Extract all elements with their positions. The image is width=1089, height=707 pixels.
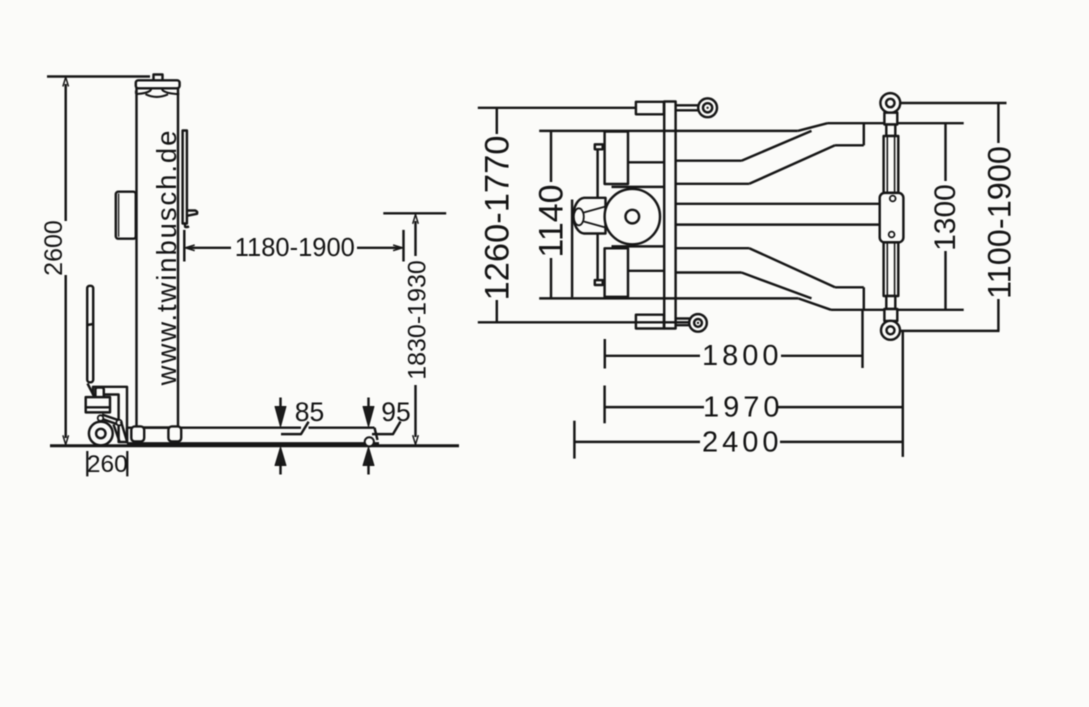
linkage bar [101, 415, 120, 425]
base tip [375, 428, 378, 440]
dim 1180-1900 right tick [402, 230, 404, 262]
tie bar bottom line [676, 223, 880, 225]
svg-text:1140: 1140 [533, 184, 571, 257]
bottom roller bracket [636, 315, 664, 329]
column cap pulley [137, 88, 179, 97]
dim 1140 vertical [550, 131, 552, 299]
svg-text:1800: 1800 [702, 340, 783, 372]
link plate pivot 2 [889, 232, 895, 238]
column body [137, 84, 179, 428]
dim 1970 left tick [603, 386, 605, 424]
pallet jack handle [87, 286, 93, 383]
dim 2600 open arrow down [63, 435, 69, 444]
dim 95 leader [372, 422, 401, 435]
dim 1970 line [605, 406, 903, 408]
top roller wheel [698, 98, 717, 117]
dim 1300 vertical [944, 123, 946, 310]
base bottom edge [127, 442, 379, 444]
pump piston knob [95, 388, 103, 398]
cylinder nose ellipse [574, 208, 584, 225]
dim 1800 left tick [604, 339, 606, 369]
dim 1100-1900 top tick line [899, 102, 1007, 104]
svg-text:260: 260 [87, 451, 128, 478]
bottom arm main diagonal [749, 248, 835, 287]
dim 2400 left tick [573, 421, 575, 459]
pump body inner line [86, 406, 110, 408]
dim 1830-1930 top tick line [383, 212, 446, 214]
bottom roller wheel [689, 314, 707, 332]
dim 1970 right tick (shared with 2400) [902, 330, 904, 457]
ground line [50, 444, 459, 447]
dim 1100-1900 vertical [997, 103, 999, 331]
link plate pivot 1 [890, 196, 896, 202]
dim 1180-1900 arrow left [185, 245, 194, 251]
bottom arm long bottom edge (also 1140 bottom tick) [539, 297, 798, 299]
plate line top B [612, 186, 665, 188]
dim 1800 right tick [861, 311, 863, 368]
column cap plate [136, 80, 180, 88]
mast strip [664, 102, 675, 329]
carriage bottom rect [605, 248, 628, 296]
top arm right end edge [863, 123, 865, 145]
link bottom eye [881, 321, 900, 340]
bottom arm inner diagonal [742, 273, 812, 299]
plate line bottom A [628, 270, 664, 272]
svg-text:1260-1770: 1260-1770 [479, 136, 517, 301]
dim 1180-1900 line right [357, 247, 402, 249]
top arm right top edge (also 1300 top tick) [828, 122, 964, 124]
handle joint line [87, 324, 93, 325]
dim 1800 line [605, 355, 863, 357]
svg-text:1100-1900: 1100-1900 [982, 146, 1018, 299]
dim 1180-1900 arrow right [393, 245, 402, 251]
linkage pivot 2 [116, 420, 122, 426]
svg-text:95: 95 [381, 397, 410, 427]
dim 2600 vertical line [64, 84, 66, 438]
jack wheel hub [96, 429, 105, 438]
svg-text:2400: 2400 [702, 427, 783, 459]
dim 1830-1930 vertical [414, 221, 416, 437]
dim 2400 line [574, 441, 902, 443]
top axle [676, 105, 699, 110]
top roller bracket [636, 102, 664, 115]
dim 1180-1900 left tick [183, 230, 185, 262]
pad plate left edge [571, 200, 573, 298]
top arm step diagonal [798, 123, 828, 131]
top arm inner diagonal [742, 131, 812, 161]
cylinder taper lines [584, 207, 606, 228]
pump body [86, 397, 110, 412]
hydraulic cylinder [573, 198, 605, 234]
bottom arm right top edge [835, 286, 864, 288]
safety bar vertical [596, 149, 598, 281]
jack wheel [89, 422, 113, 446]
bottom arm right bottom edge (also 1300 bottom tick) [831, 309, 964, 311]
svg-text:1180-1900: 1180-1900 [235, 234, 355, 262]
pump top bracket [93, 387, 127, 442]
link center plate [880, 193, 904, 243]
handle slant link [88, 384, 96, 399]
svg-text:1830-1930: 1830-1930 [404, 260, 432, 380]
plate line bottom B [612, 245, 665, 247]
carriage foot [185, 211, 197, 228]
dim 1260-1770 bottom tick line [478, 321, 689, 323]
safety bar top tab [595, 144, 603, 149]
top arm bottom edge [676, 183, 750, 185]
dim 85 down arrow [279, 398, 281, 412]
bottom arm inner edge [676, 271, 742, 273]
bottom arm top edge [676, 247, 750, 249]
link top clevis [884, 113, 897, 125]
top arm main diagonal [749, 145, 835, 184]
bottom arm step diagonal [798, 298, 831, 309]
dim 95 up arrow [363, 447, 374, 466]
top arm long top edge (also 1140 top tick) [539, 130, 798, 132]
svg-text:1300: 1300 [929, 184, 962, 251]
linkage pivot 1 [98, 415, 104, 421]
base foot pad 2 [168, 426, 181, 441]
dim 1100-1900 bottom tick line [900, 330, 1000, 332]
dim 1830-1930 arrow up [413, 215, 419, 224]
link top eye [880, 93, 900, 113]
dim 2600 top tick line [47, 75, 150, 77]
svg-text:2600: 2600 [40, 220, 68, 276]
base top edge [127, 426, 375, 428]
dim 85 leader [281, 422, 309, 434]
tie bar top line [676, 203, 880, 205]
motor box [116, 192, 136, 239]
link upper rod [884, 136, 899, 193]
lift pad hub [626, 210, 640, 224]
base tip roller [365, 437, 374, 446]
top arm right bottom edge [835, 144, 864, 146]
dim 1180-1900 line left [187, 247, 232, 249]
dim 85 up arrow [275, 447, 286, 466]
base foot pad 1 [131, 426, 144, 441]
link bottom clevis [886, 296, 895, 309]
dim 1260-1770 vertical [496, 108, 498, 322]
base left edge [126, 428, 128, 444]
dim 95 down arrow [367, 398, 369, 412]
dim 2600 open arrow up [63, 77, 69, 86]
dim 1830-1930 arrow down [413, 435, 419, 444]
plate line top A [628, 161, 664, 163]
carriage top rect [605, 132, 628, 185]
safety bar bottom tab [595, 280, 603, 285]
svg-text:www.twinbusch.de: www.twinbusch.de [151, 129, 182, 387]
top arm inner edge [676, 159, 742, 161]
linkage diagonal member [114, 422, 128, 442]
column cap knob [154, 75, 163, 82]
dim 1260-1770 top tick line [478, 107, 636, 109]
svg-text:1970: 1970 [703, 392, 784, 424]
link lower rod [884, 242, 899, 296]
lift pad circle [605, 189, 660, 244]
carriage strip [183, 131, 187, 224]
bottom axle [676, 319, 690, 326]
bottom arm right end edge [863, 287, 865, 310]
